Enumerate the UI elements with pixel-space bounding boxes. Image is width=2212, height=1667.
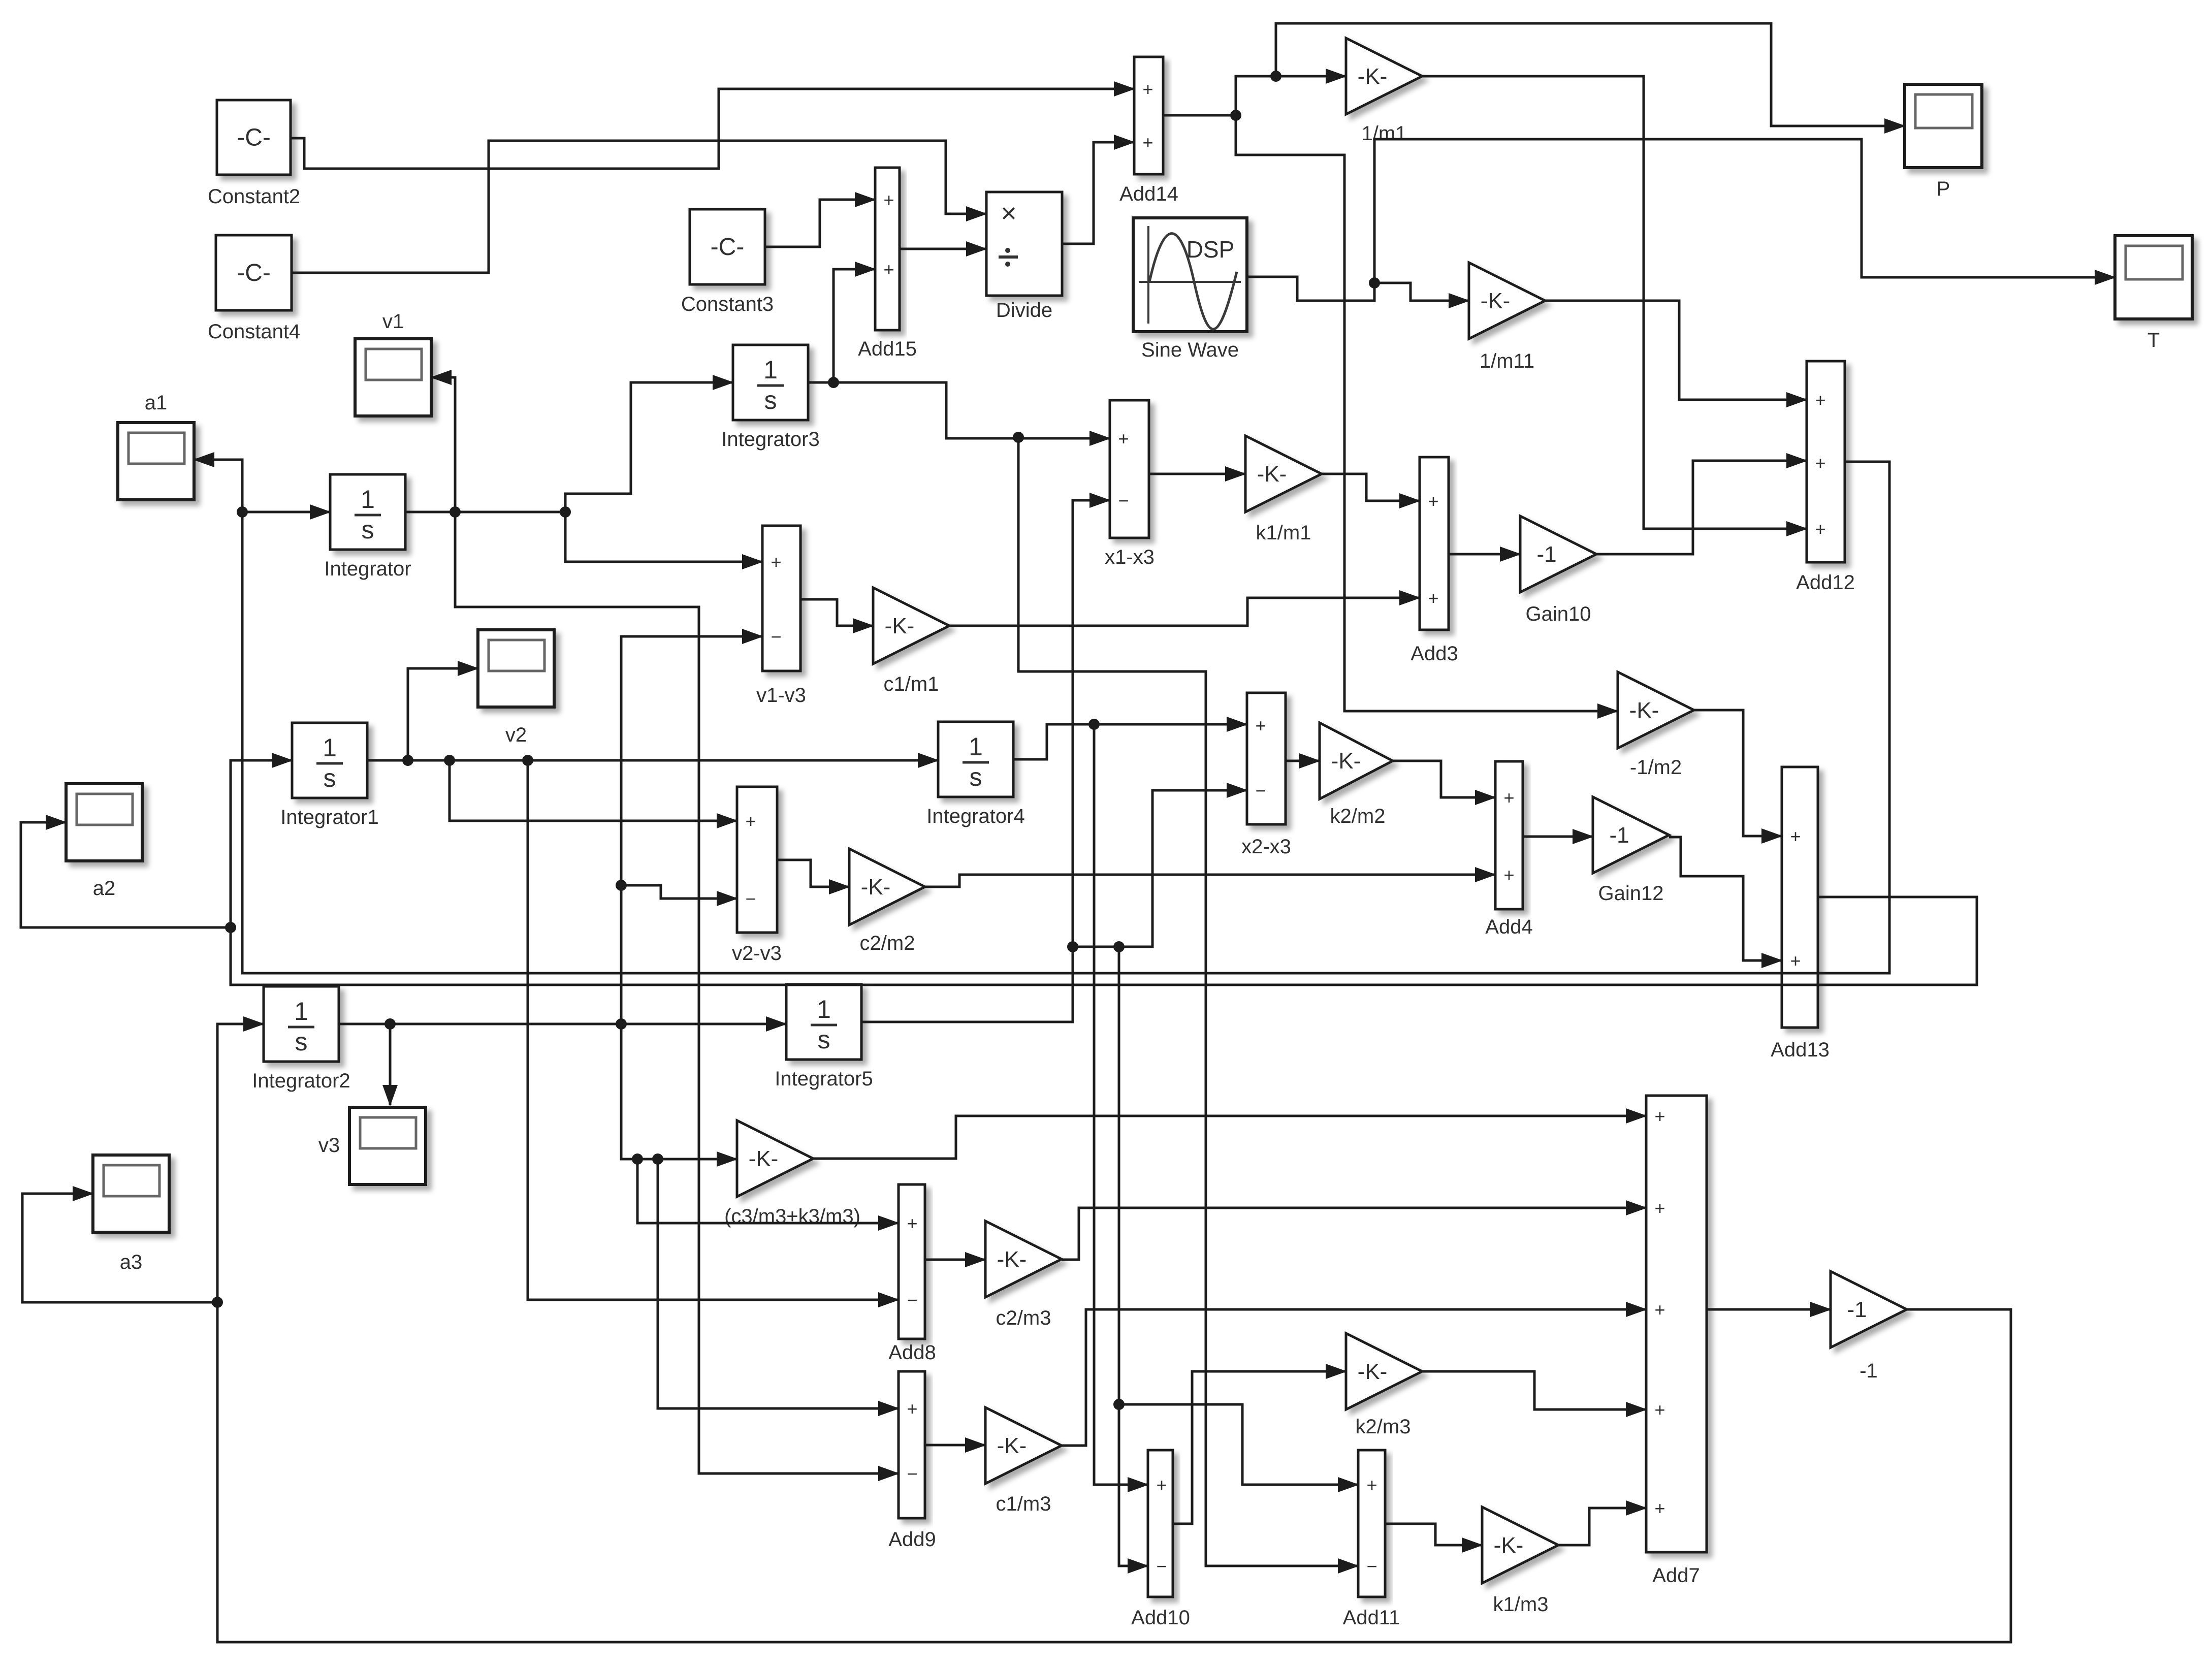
svg-text:v3: v3 bbox=[318, 1134, 340, 1157]
svg-text:+: + bbox=[1118, 428, 1129, 449]
svg-text:v2: v2 bbox=[505, 724, 527, 746]
svg-text:-C-: -C- bbox=[237, 124, 271, 151]
svg-text:-K-: -K- bbox=[1629, 698, 1659, 723]
svg-text:+: + bbox=[1654, 1198, 1665, 1219]
svg-text:Add10: Add10 bbox=[1131, 1607, 1190, 1629]
svg-text:Sine Wave: Sine Wave bbox=[1141, 339, 1239, 361]
svg-text:x1-x3: x1-x3 bbox=[1105, 546, 1155, 568]
svg-text:Add3: Add3 bbox=[1410, 643, 1458, 665]
svg-text:s: s bbox=[295, 1028, 308, 1056]
svg-text:s: s bbox=[970, 763, 982, 791]
svg-text:Gain12: Gain12 bbox=[1598, 882, 1664, 905]
svg-text:a3: a3 bbox=[120, 1251, 143, 1273]
svg-text:+: + bbox=[771, 552, 781, 572]
svg-text:-K-: -K- bbox=[1358, 64, 1388, 89]
svg-text:+: + bbox=[1815, 519, 1825, 539]
svg-text:Add11: Add11 bbox=[1343, 1607, 1400, 1629]
svg-text:Add8: Add8 bbox=[888, 1341, 936, 1364]
svg-text:1: 1 bbox=[969, 732, 983, 761]
svg-text:Integrator4: Integrator4 bbox=[926, 805, 1024, 827]
svg-text:+: + bbox=[1654, 1299, 1665, 1320]
svg-text:−: − bbox=[907, 1290, 917, 1310]
svg-text:1: 1 bbox=[361, 485, 375, 514]
svg-text:+: + bbox=[883, 259, 894, 280]
svg-text:Add14: Add14 bbox=[1119, 183, 1178, 205]
svg-text:-K-: -K- bbox=[1481, 288, 1511, 313]
svg-text:s: s bbox=[324, 764, 336, 792]
svg-text:1: 1 bbox=[763, 356, 778, 384]
svg-text:-K-: -K- bbox=[1494, 1533, 1524, 1558]
svg-text:+: + bbox=[1156, 1474, 1167, 1495]
svg-text:Integrator5: Integrator5 bbox=[775, 1068, 873, 1090]
svg-text:k1/m1: k1/m1 bbox=[1256, 522, 1311, 544]
svg-text:−: − bbox=[1255, 780, 1266, 801]
svg-text:T: T bbox=[2147, 329, 2160, 351]
svg-text:c2/m3: c2/m3 bbox=[996, 1307, 1051, 1329]
svg-text:+: + bbox=[745, 811, 756, 831]
svg-text:+: + bbox=[1815, 390, 1825, 410]
svg-text:1: 1 bbox=[323, 733, 337, 762]
svg-text:DSP: DSP bbox=[1187, 236, 1235, 263]
svg-text:Divide: Divide bbox=[996, 299, 1052, 322]
svg-text:-K-: -K- bbox=[749, 1146, 779, 1171]
svg-text:+: + bbox=[1790, 826, 1801, 847]
svg-text:s: s bbox=[818, 1025, 830, 1054]
svg-text:v1: v1 bbox=[382, 310, 404, 333]
svg-text:1: 1 bbox=[294, 997, 308, 1025]
svg-text:-1: -1 bbox=[1847, 1297, 1867, 1322]
svg-text:−: − bbox=[745, 888, 756, 909]
svg-text:s: s bbox=[362, 516, 374, 544]
svg-text:+: + bbox=[907, 1398, 917, 1419]
svg-text:−: − bbox=[907, 1463, 917, 1484]
svg-text:+: + bbox=[1654, 1399, 1665, 1420]
svg-text:+: + bbox=[883, 189, 894, 210]
svg-text:+: + bbox=[1142, 79, 1153, 100]
svg-text:Add13: Add13 bbox=[1771, 1039, 1830, 1061]
svg-text:Add7: Add7 bbox=[1652, 1564, 1700, 1587]
svg-text:Constant4: Constant4 bbox=[208, 320, 300, 343]
svg-text:+: + bbox=[1366, 1474, 1377, 1495]
svg-text:k2/m2: k2/m2 bbox=[1330, 805, 1386, 827]
svg-text:-1: -1 bbox=[1536, 542, 1556, 567]
svg-text:+: + bbox=[1142, 132, 1153, 153]
svg-text:Gain10: Gain10 bbox=[1526, 603, 1591, 625]
svg-text:Integrator: Integrator bbox=[324, 558, 411, 580]
svg-text:s: s bbox=[764, 386, 777, 414]
svg-text:-1/m2: -1/m2 bbox=[1630, 756, 1682, 779]
svg-text:-C-: -C- bbox=[237, 260, 271, 286]
svg-text:-C-: -C- bbox=[711, 234, 745, 261]
svg-text:c1/m3: c1/m3 bbox=[996, 1493, 1051, 1515]
svg-text:P: P bbox=[1937, 178, 1950, 200]
svg-text:+: + bbox=[1503, 864, 1514, 885]
svg-text:Integrator1: Integrator1 bbox=[280, 806, 378, 828]
svg-text:+: + bbox=[1503, 787, 1514, 808]
svg-text:-K-: -K- bbox=[1331, 749, 1361, 774]
svg-text:-1: -1 bbox=[1609, 823, 1629, 848]
svg-text:−: − bbox=[1118, 490, 1129, 511]
svg-text:+: + bbox=[1255, 715, 1266, 736]
svg-text:Integrator2: Integrator2 bbox=[252, 1070, 350, 1092]
svg-text:x2-x3: x2-x3 bbox=[1241, 836, 1291, 858]
svg-text:c1/m1: c1/m1 bbox=[884, 673, 939, 695]
svg-text:a1: a1 bbox=[145, 392, 168, 414]
svg-text:-K-: -K- bbox=[1358, 1359, 1388, 1384]
svg-text:+: + bbox=[1790, 950, 1801, 971]
svg-text:−: − bbox=[771, 626, 781, 647]
svg-text:k1/m3: k1/m3 bbox=[1493, 1593, 1549, 1616]
svg-text:Add9: Add9 bbox=[888, 1528, 936, 1551]
svg-text:-K-: -K- bbox=[861, 875, 891, 900]
svg-text:k2/m3: k2/m3 bbox=[1356, 1416, 1411, 1438]
svg-text:Add15: Add15 bbox=[858, 338, 917, 360]
svg-text:-K-: -K- bbox=[1257, 462, 1287, 487]
svg-text:+: + bbox=[1428, 588, 1438, 608]
svg-text:×: × bbox=[1001, 198, 1017, 229]
svg-text:-K-: -K- bbox=[997, 1433, 1027, 1458]
svg-text:-K-: -K- bbox=[885, 614, 915, 638]
svg-text:Add12: Add12 bbox=[1796, 571, 1855, 594]
svg-text:+: + bbox=[1815, 453, 1825, 473]
svg-text:−: − bbox=[1366, 1556, 1377, 1577]
svg-text:Integrator3: Integrator3 bbox=[721, 428, 819, 451]
svg-text:Add4: Add4 bbox=[1485, 916, 1532, 938]
svg-text:+: + bbox=[1428, 491, 1438, 511]
svg-text:a2: a2 bbox=[93, 877, 116, 900]
svg-text:v2-v3: v2-v3 bbox=[732, 942, 782, 965]
svg-text:c2/m2: c2/m2 bbox=[860, 932, 915, 954]
svg-text:1/m11: 1/m11 bbox=[1480, 350, 1534, 372]
svg-text:-1: -1 bbox=[1860, 1360, 1878, 1382]
svg-text:+: + bbox=[1654, 1498, 1665, 1519]
svg-text:-K-: -K- bbox=[997, 1247, 1027, 1272]
svg-text:−: − bbox=[1156, 1556, 1167, 1577]
svg-text:+: + bbox=[1654, 1106, 1665, 1127]
svg-text:1/m1: 1/m1 bbox=[1362, 122, 1407, 145]
svg-text:Constant2: Constant2 bbox=[208, 185, 300, 208]
svg-text:+: + bbox=[907, 1213, 917, 1234]
svg-text:1: 1 bbox=[817, 995, 831, 1023]
svg-text:Constant3: Constant3 bbox=[681, 293, 774, 315]
svg-text:v1-v3: v1-v3 bbox=[756, 684, 806, 707]
